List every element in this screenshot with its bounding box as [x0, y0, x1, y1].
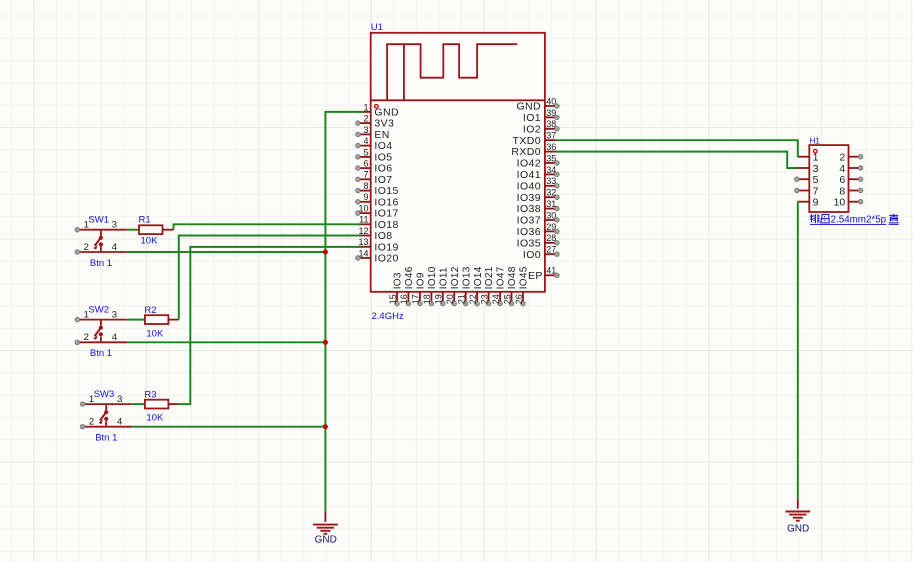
svg-text:11: 11 — [359, 215, 368, 225]
svg-text:9: 9 — [363, 192, 368, 202]
ground symbol GND (switch rail) — [313, 512, 338, 546]
wire SW1 pin4 to GND rail — [127, 251, 326, 253]
header H1 — [809, 137, 848, 212]
svg-text:IO11: IO11 — [438, 267, 449, 289]
svg-text:GND: GND — [516, 101, 541, 113]
svg-text:24: 24 — [491, 294, 501, 304]
svg-text:SW2: SW2 — [88, 305, 109, 316]
svg-text:U1: U1 — [371, 22, 383, 33]
ESP32 module U1 — [371, 22, 545, 292]
svg-text:10K: 10K — [141, 236, 159, 247]
svg-text:IO15: IO15 — [374, 185, 398, 197]
junction SW2/GND rail — [323, 340, 328, 345]
svg-text:IO47: IO47 — [496, 266, 507, 289]
svg-text:IO3: IO3 — [393, 272, 404, 289]
wire H1 pin9 to ground — [797, 202, 799, 499]
svg-text:2: 2 — [84, 242, 89, 253]
resistor R1 10K — [139, 225, 163, 234]
U1 pin 41 EP — [528, 265, 559, 282]
svg-text:IO0: IO0 — [523, 249, 541, 261]
svg-text:IO17: IO17 — [374, 208, 398, 220]
svg-text:26: 26 — [514, 294, 524, 304]
H1 left pin stubs 1,3,5,7,9 — [795, 157, 810, 202]
U1 left pin stubs 1-14 — [356, 112, 371, 260]
svg-text:3: 3 — [363, 125, 368, 135]
svg-text:41: 41 — [546, 265, 556, 275]
svg-text:3V3: 3V3 — [374, 118, 394, 130]
svg-text:16: 16 — [399, 294, 409, 304]
svg-text:2: 2 — [839, 152, 845, 164]
svg-text:1: 1 — [89, 394, 94, 405]
pushbutton switch SW3 — [80, 402, 132, 429]
U1 right pin numbers 40-27 — [546, 96, 556, 254]
U1 antenna region divider line — [371, 99, 545, 101]
svg-text:IO18: IO18 — [374, 219, 398, 231]
svg-text:20: 20 — [445, 294, 455, 304]
svg-text:2: 2 — [84, 332, 89, 343]
svg-text:IO7: IO7 — [374, 174, 392, 186]
svg-text:IO9: IO9 — [416, 272, 427, 289]
svg-text:1: 1 — [813, 152, 819, 164]
svg-text:4: 4 — [363, 136, 368, 146]
svg-text:IO5: IO5 — [374, 152, 392, 164]
svg-text:IO16: IO16 — [374, 196, 398, 208]
svg-text:IO20: IO20 — [374, 253, 398, 265]
svg-text:Btn 1: Btn 1 — [90, 258, 112, 269]
wire SW3 pin4 to GND rail — [132, 426, 325, 428]
svg-text:2.54mm2*5p: 2.54mm2*5p — [831, 214, 887, 225]
svg-text:SW1: SW1 — [88, 215, 109, 226]
svg-text:12: 12 — [358, 226, 368, 236]
svg-text:R1: R1 — [139, 215, 151, 226]
svg-text:5: 5 — [813, 174, 819, 186]
svg-text:IO40: IO40 — [517, 180, 541, 192]
pushbutton switch SW1 — [75, 227, 127, 254]
ground symbol GND (header) — [785, 499, 810, 535]
svg-text:37: 37 — [546, 131, 556, 141]
svg-text:28: 28 — [546, 233, 556, 243]
wire R3 to U1 IO19 (net SW3_OUT) — [178, 247, 362, 404]
svg-text:IO6: IO6 — [374, 163, 392, 175]
svg-text:IO36: IO36 — [517, 226, 541, 238]
svg-text:18: 18 — [422, 294, 432, 304]
H1 pin-1 marker ring — [814, 149, 818, 153]
svg-text:4: 4 — [839, 163, 845, 175]
SW1 pin numbers 1 3 2 4 — [84, 220, 117, 253]
svg-text:EP: EP — [528, 270, 543, 282]
wire SW2 pin3 to R2 — [127, 319, 145, 321]
svg-text:2.4GHz: 2.4GHz — [372, 311, 404, 322]
U1 PCB antenna meander — [387, 44, 517, 100]
svg-text:IO35: IO35 — [517, 237, 541, 249]
R2 right lead — [168, 319, 178, 321]
svg-text:GND: GND — [374, 107, 399, 119]
svg-text:3: 3 — [117, 394, 122, 405]
svg-text:7: 7 — [813, 185, 819, 197]
resistor R3 10K — [145, 400, 169, 409]
svg-text:36: 36 — [546, 142, 556, 152]
U1 left pin numbers 1-14 — [358, 102, 368, 258]
svg-text:4: 4 — [117, 417, 122, 428]
wire R1 to U1 IO18 (net SW1_OUT) — [174, 224, 362, 229]
svg-text:3: 3 — [112, 309, 117, 320]
svg-text:R2: R2 — [144, 305, 156, 316]
svg-text:IO2: IO2 — [523, 123, 541, 135]
wire U1 RXD0 to H1 pin3 — [556, 152, 797, 168]
pushbutton switch SW2 — [75, 317, 127, 344]
svg-text:IO42: IO42 — [517, 158, 541, 170]
svg-text:IO19: IO19 — [374, 241, 398, 253]
svg-text:IO14: IO14 — [473, 266, 484, 289]
H1 pin numbers — [813, 152, 846, 209]
svg-text:32: 32 — [546, 188, 556, 198]
svg-text:3: 3 — [813, 163, 819, 175]
svg-text:IO13: IO13 — [461, 266, 472, 289]
svg-text:33: 33 — [546, 176, 556, 186]
svg-text:RXD0: RXD0 — [511, 146, 541, 158]
svg-text:1: 1 — [84, 309, 89, 320]
svg-text:EN: EN — [374, 129, 389, 141]
svg-text:IO41: IO41 — [517, 169, 541, 181]
svg-text:IO8: IO8 — [374, 230, 392, 242]
svg-text:8: 8 — [839, 185, 845, 197]
svg-text:40: 40 — [546, 96, 556, 106]
SW3 pin numbers 1 3 2 4 — [89, 394, 122, 428]
svg-text:GND: GND — [315, 535, 337, 546]
svg-text:10: 10 — [834, 197, 846, 209]
U1 right pin stubs 40-27 — [545, 104, 559, 257]
svg-text:31: 31 — [546, 199, 556, 209]
svg-text:38: 38 — [546, 119, 556, 129]
svg-text:IO12: IO12 — [450, 266, 461, 289]
svg-text:IO39: IO39 — [517, 192, 541, 204]
wire SW3 pin3 to R3 — [132, 403, 145, 405]
svg-text:IO46: IO46 — [404, 266, 415, 289]
svg-text:2: 2 — [89, 417, 94, 428]
svg-text:25: 25 — [502, 294, 512, 304]
wire R2 to U1 IO8 (net SW2_OUT) — [179, 236, 361, 320]
svg-text:34: 34 — [546, 165, 556, 175]
junction SW3/GND rail — [323, 424, 328, 429]
svg-text:6: 6 — [363, 159, 368, 169]
svg-text:4: 4 — [112, 242, 117, 253]
U1 right pin names GND..IO0 — [511, 101, 541, 261]
svg-text:6: 6 — [839, 174, 845, 186]
SW2 pin numbers 1 3 2 4 — [84, 309, 117, 343]
U1 bottom pin stubs 15-26 — [395, 292, 526, 306]
svg-text:IO48: IO48 — [507, 266, 518, 289]
svg-text:Btn 1: Btn 1 — [95, 433, 117, 444]
svg-text:2: 2 — [363, 114, 368, 124]
junction SW1/GND rail — [323, 250, 328, 255]
svg-text:IO21: IO21 — [484, 266, 495, 289]
U1 bottom pin numbers 15-26 (rotated) — [388, 294, 524, 304]
R3 right lead — [168, 403, 177, 405]
svg-text:22: 22 — [468, 294, 478, 304]
svg-text:14: 14 — [358, 248, 368, 258]
svg-text:IO37: IO37 — [517, 215, 541, 227]
svg-text:5: 5 — [363, 147, 368, 157]
wire SW2 pin4 to GND rail — [127, 341, 326, 343]
resistor R2 10K — [145, 315, 169, 324]
svg-text:4: 4 — [112, 332, 117, 343]
svg-text:R3: R3 — [144, 390, 156, 401]
R1 right lead — [163, 229, 174, 231]
svg-text:3: 3 — [112, 220, 117, 231]
svg-text:1: 1 — [84, 220, 89, 231]
svg-text:8: 8 — [363, 181, 368, 191]
svg-text:23: 23 — [479, 294, 489, 304]
svg-text:10K: 10K — [146, 328, 164, 339]
svg-text:27: 27 — [546, 245, 556, 255]
svg-text:IO38: IO38 — [517, 203, 541, 215]
svg-text:13: 13 — [358, 237, 368, 247]
U1 pin-1 marker ring — [375, 105, 379, 109]
H1 value 2.54mm 2*5p header (CJK drawn as paths) — [810, 214, 899, 226]
svg-text:IO4: IO4 — [374, 140, 392, 152]
svg-text:10: 10 — [358, 204, 368, 214]
svg-text:IO10: IO10 — [427, 266, 438, 289]
svg-text:IO1: IO1 — [523, 112, 541, 124]
svg-text:19: 19 — [434, 294, 444, 304]
wire U1 TXD0 to H1 pin1 — [556, 140, 798, 157]
wire U1 GND pin1 to ground rail — [325, 112, 364, 512]
svg-text:17: 17 — [411, 294, 421, 304]
svg-text:Btn 1: Btn 1 — [90, 348, 112, 359]
svg-text:10K: 10K — [146, 413, 164, 424]
U1 left pin names GND..IO20 — [374, 107, 399, 265]
svg-text:21: 21 — [457, 294, 467, 304]
H1 right pin stubs 2,4,6,8,10 — [849, 154, 863, 204]
svg-text:15: 15 — [388, 294, 398, 304]
svg-text:7: 7 — [363, 170, 368, 180]
svg-text:TXD0: TXD0 — [513, 135, 541, 147]
wire SW1 pin3 to R1 — [127, 229, 139, 231]
svg-text:35: 35 — [546, 153, 556, 163]
svg-text:GND: GND — [787, 523, 809, 534]
svg-text:9: 9 — [813, 197, 819, 209]
U1 bottom pin names IO3..IO45 (rotated) — [393, 266, 530, 289]
svg-text:SW3: SW3 — [94, 389, 115, 400]
svg-text:29: 29 — [546, 222, 556, 232]
svg-text:39: 39 — [546, 108, 556, 118]
svg-text:30: 30 — [546, 210, 556, 220]
svg-text:1: 1 — [363, 102, 368, 112]
